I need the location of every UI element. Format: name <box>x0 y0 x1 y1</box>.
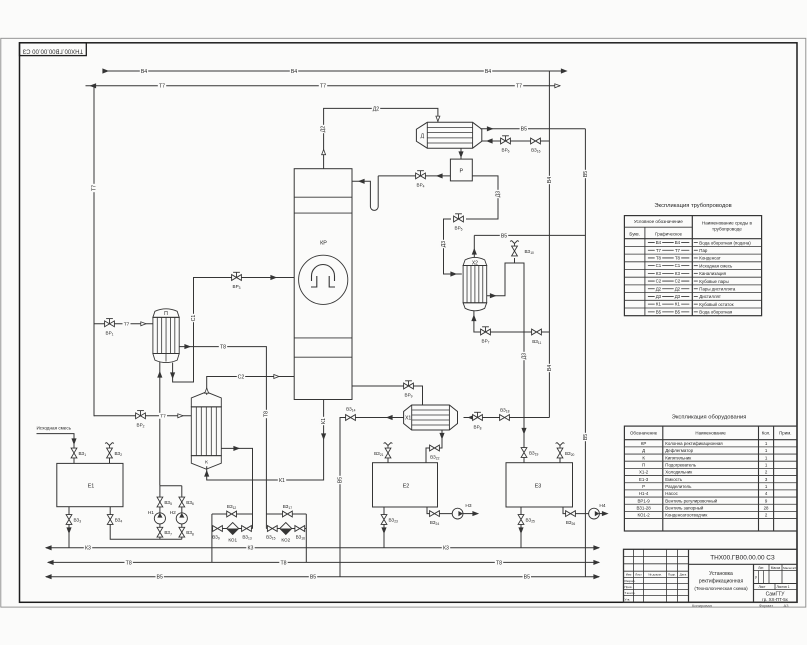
svg-text:Т7: Т7 <box>656 248 662 253</box>
valve VZ9 <box>213 526 223 532</box>
valve VZ3 <box>66 515 72 525</box>
tank E1 <box>57 463 123 506</box>
svg-text:Н2: Н2 <box>170 510 176 516</box>
valve VZ6 <box>179 497 185 507</box>
svg-text:Д2: Д2 <box>321 126 327 133</box>
svg-text:К3: К3 <box>85 546 91 552</box>
wire B4 to X2 bottom <box>478 331 549 333</box>
svg-text:Емкость: Емкость <box>665 477 683 482</box>
valve VR8 <box>477 412 479 417</box>
svg-text:С2: С2 <box>238 374 245 380</box>
valve VZ15 <box>267 526 277 532</box>
svg-text:Дистиллят: Дистиллят <box>699 294 721 299</box>
wire N4 discharge <box>599 513 604 515</box>
svg-text:28: 28 <box>764 506 769 511</box>
svg-text:В5: В5 <box>675 309 681 314</box>
wire E3 drain to K3 <box>520 507 522 548</box>
svg-text:Канализация: Канализация <box>699 271 726 276</box>
svg-text:Т8: Т8 <box>656 256 662 261</box>
svg-text:Т7: Т7 <box>675 248 681 253</box>
svg-text:Д: Д <box>421 133 425 139</box>
svg-text:Обозначение: Обозначение <box>630 431 658 436</box>
svg-text:ректификационная: ректификационная <box>699 579 744 585</box>
valve VZ16b <box>295 526 305 532</box>
pump N2 <box>176 513 187 524</box>
svg-text:Кубовые пары: Кубовые пары <box>699 279 728 284</box>
valve VZ25 <box>518 515 524 525</box>
svg-text:Т7: Т7 <box>91 185 97 191</box>
svg-text:КО2: КО2 <box>281 538 290 543</box>
svg-text:Х1: Х1 <box>405 416 411 422</box>
wire K1 side draw from column to X1 <box>352 386 423 405</box>
svg-text:у: у <box>755 575 757 579</box>
svg-text:Конденсатоотводчик: Конденсатоотводчик <box>665 513 707 518</box>
vent valve VZ2 on E1 <box>109 458 111 463</box>
svg-text:Установка: Установка <box>709 571 733 577</box>
svg-text:КР: КР <box>320 241 327 247</box>
wire B4 to D <box>482 140 550 142</box>
trap KO1 piping <box>212 513 253 515</box>
svg-text:К1: К1 <box>675 302 681 307</box>
wire pump discharge header <box>160 485 182 487</box>
wire T7 top header <box>86 85 561 87</box>
svg-text:Дата: Дата <box>680 573 687 577</box>
svg-text:Д3: Д3 <box>656 294 662 299</box>
svg-text:Холодильник: Холодильник <box>665 470 692 475</box>
svg-text:Наименование: Наименование <box>695 431 726 436</box>
svg-text:Т7: Т7 <box>124 322 130 328</box>
svg-text:Вентиль регулировочный: Вентиль регулировочный <box>665 498 717 503</box>
svg-text:Разделитель: Разделитель <box>665 484 692 489</box>
valve VR2 <box>140 411 142 416</box>
wire B4 top header <box>103 70 567 72</box>
svg-text:Экспликация оборудования: Экспликация оборудования <box>672 415 747 421</box>
vent valve VZ10 on D3 loop <box>514 258 516 263</box>
wire T8 header <box>48 561 599 563</box>
svg-text:ВЗ1-28: ВЗ1-28 <box>636 506 651 511</box>
valve VZ18 <box>500 415 510 421</box>
column KP tray symbol <box>299 255 348 304</box>
valve VZ5 <box>157 497 163 507</box>
svg-text:Д: Д <box>642 448 645 453</box>
svg-text:Копировал: Копировал <box>692 603 713 608</box>
wire X2 bottom inlet <box>474 311 481 332</box>
svg-text:Т8: Т8 <box>264 411 270 417</box>
svg-text:В5: В5 <box>337 477 343 483</box>
svg-text:П: П <box>164 311 168 317</box>
svg-text:Букв.: Букв. <box>629 231 639 236</box>
svg-text:Д2: Д2 <box>373 106 380 112</box>
reflux U-seal <box>352 176 378 211</box>
wire B5 from D <box>480 128 585 130</box>
svg-text:Т8: Т8 <box>675 256 681 261</box>
svg-text:С2: С2 <box>656 279 662 284</box>
wire B4 to X1 <box>464 417 550 419</box>
svg-text:Подогреватель: Подогреватель <box>665 462 696 467</box>
svg-text:Масса: Масса <box>771 566 781 570</box>
svg-text:Т8: Т8 <box>126 560 132 566</box>
wire D3 into E3 <box>523 418 525 463</box>
svg-text:К: К <box>205 460 208 466</box>
svg-text:Разраб.: Разраб. <box>625 579 636 583</box>
svg-text:С1: С1 <box>656 263 662 268</box>
wire E2 drain to K3 <box>383 507 385 548</box>
svg-text:Кол.: Кол. <box>762 431 771 436</box>
valve VZ13 <box>242 526 252 532</box>
svg-text:Т7: Т7 <box>159 84 165 90</box>
wire B5 riser <box>584 129 586 577</box>
cooler X2 <box>463 266 487 303</box>
svg-text:Д3: Д3 <box>441 241 447 248</box>
svg-text:К3: К3 <box>656 271 662 276</box>
svg-text:В4: В4 <box>675 240 681 245</box>
wire N3 discharge <box>463 513 474 515</box>
wire D condensate to separator <box>460 148 462 159</box>
svg-text:К1: К1 <box>656 302 662 307</box>
svg-text:(Технологическая схема): (Технологическая схема) <box>694 586 748 591</box>
svg-text:Е1-3: Е1-3 <box>639 477 649 482</box>
svg-text:гр. ХХ-ПТ-5х: гр. ХХ-ПТ-5х <box>762 597 789 602</box>
cooler X1 <box>404 405 458 430</box>
svg-text:Е2: Е2 <box>403 484 410 490</box>
svg-text:Д3: Д3 <box>521 353 527 360</box>
svg-text:К3: К3 <box>675 271 681 276</box>
wire K3 header <box>46 547 599 549</box>
svg-text:Н3: Н3 <box>465 503 471 509</box>
wire T7 riser left <box>93 86 95 416</box>
svg-text:В5: В5 <box>583 434 589 440</box>
svg-text:В5: В5 <box>656 309 662 314</box>
svg-text:Экспликация трубопроводов: Экспликация трубопроводов <box>654 203 731 209</box>
svg-text:Наименование среды в: Наименование среды в <box>702 221 753 226</box>
wire D3 from X2 over loop <box>487 263 524 418</box>
valve VZ14 <box>346 415 356 421</box>
svg-text:Графическое: Графическое <box>655 231 682 236</box>
svg-text:Д2: Д2 <box>656 286 662 291</box>
wire E1 outlet to pumps <box>110 507 182 540</box>
separator P <box>450 159 472 181</box>
wire D3 distillate from P <box>466 176 498 219</box>
wire B5 out of X1 <box>340 418 404 577</box>
wire X2 water outlet B5 <box>473 235 475 257</box>
svg-text:ВР1-9: ВР1-9 <box>637 498 650 503</box>
svg-text:Вода оборотная (подача): Вода оборотная (подача) <box>699 240 751 245</box>
svg-text:Т8: Т8 <box>496 560 502 566</box>
valve VZ16 <box>531 138 541 144</box>
svg-text:Лист: Лист <box>759 585 766 589</box>
deflegmator D <box>416 122 481 148</box>
svg-text:Вентиль запорный: Вентиль запорный <box>665 506 704 511</box>
svg-text:Колонна ректификационная: Колонна ректификационная <box>665 441 723 446</box>
svg-text:Т7: Т7 <box>320 84 326 90</box>
wire T7 to preheater <box>94 323 153 325</box>
valve VR3 <box>236 272 238 277</box>
svg-text:КО1-2: КО1-2 <box>637 513 650 518</box>
svg-text:В4: В4 <box>547 365 553 371</box>
svg-text:Р: Р <box>642 484 645 489</box>
wire T8 from K to trap KO1 <box>221 448 252 528</box>
wire reflux from P to column <box>378 175 450 177</box>
svg-text:В5: В5 <box>157 575 163 581</box>
valve VZ23 <box>381 515 387 525</box>
svg-text:К3: К3 <box>248 546 254 552</box>
svg-text:Т8: Т8 <box>280 560 286 566</box>
wire T7 to reboiler <box>94 415 191 417</box>
valve VZ7 <box>157 527 163 537</box>
svg-text:Утв.: Утв. <box>625 598 631 602</box>
wire K1 column bottom to reboiler <box>207 400 324 481</box>
valve VZ8 <box>179 527 185 537</box>
wire C2 vapor from K to column <box>207 377 295 395</box>
title block <box>624 549 798 602</box>
preheater P <box>153 317 179 353</box>
valve VR6 <box>505 136 507 141</box>
pump N1 <box>154 513 165 524</box>
trap KO1 <box>227 523 239 535</box>
svg-text:Н4: Н4 <box>599 503 605 509</box>
trap KO2 <box>280 523 292 535</box>
svg-text:Х1-2: Х1-2 <box>639 470 649 475</box>
svg-text:Исходная смесь: Исходная смесь <box>699 263 733 268</box>
wire pump suction/discharge H1 <box>159 524 161 539</box>
valve VZ24 <box>430 511 440 517</box>
trap KO2 piping <box>266 513 306 515</box>
valve VR7 <box>485 327 487 332</box>
svg-text:Пар: Пар <box>699 248 708 253</box>
svg-text:К3: К3 <box>443 546 449 552</box>
valve VR1 <box>109 319 111 324</box>
svg-text:КО1: КО1 <box>228 538 237 543</box>
valve VZ11 <box>532 329 542 335</box>
valve VR9 <box>408 381 410 386</box>
wire K1 from X1 to tank E2 <box>426 430 442 463</box>
svg-text:К: К <box>642 455 645 460</box>
svg-text:Пров.: Пров. <box>625 585 633 589</box>
valve VR4 <box>420 171 422 176</box>
svg-text:В4: В4 <box>656 240 662 245</box>
svg-text:В4: В4 <box>547 177 553 183</box>
svg-text:К1: К1 <box>279 478 285 484</box>
reboiler K <box>191 407 221 456</box>
svg-text:К1: К1 <box>321 418 327 424</box>
svg-text:Формат: Формат <box>759 603 773 608</box>
valve VZ19 <box>521 448 527 458</box>
svg-text:Е1: Е1 <box>88 484 95 490</box>
svg-text:В4: В4 <box>485 69 491 75</box>
vent valve VZ20 on E3 <box>559 458 561 463</box>
svg-text:Изм: Изм <box>626 573 632 577</box>
wire T8 from preheater <box>179 347 266 514</box>
svg-text:Х2: Х2 <box>472 260 478 266</box>
svg-text:Р: Р <box>459 169 463 175</box>
svg-text:В5: В5 <box>501 233 507 239</box>
svg-text:Кипятильник: Кипятильник <box>665 455 691 460</box>
tank E3 <box>506 463 573 507</box>
svg-text:Н1-4: Н1-4 <box>639 491 649 496</box>
svg-text:Лист: Лист <box>635 573 642 577</box>
wire feed to E1 <box>37 434 75 464</box>
svg-text:Т.контр.: Т.контр. <box>625 591 636 595</box>
svg-text:В4: В4 <box>141 69 147 75</box>
valve VZ17 bypass <box>283 511 293 517</box>
svg-text:Лит.: Лит. <box>758 566 764 570</box>
valve VZ4 <box>107 515 113 525</box>
svg-text:Т7: Т7 <box>516 84 522 90</box>
svg-text:Н1: Н1 <box>148 510 154 516</box>
svg-text:КР: КР <box>641 441 647 446</box>
tank E2 <box>373 463 438 507</box>
svg-text:Кубовый остаток: Кубовый остаток <box>699 302 733 307</box>
wire E1 drain to K3 <box>68 507 70 548</box>
inverted designation stamp <box>20 43 87 56</box>
svg-text:ТНХ00.ГВ00.00.00 СЗ: ТНХ00.ГВ00.00.00 СЗ <box>22 47 83 53</box>
svg-text:Масштаб: Масштаб <box>783 566 796 570</box>
svg-text:С2: С2 <box>675 279 681 284</box>
svg-text:ТНХ00.ГВ00.00.00 СЗ: ТНХ00.ГВ00.00.00 СЗ <box>710 555 775 562</box>
valve VR5 <box>458 214 460 219</box>
valve VZ22 <box>430 445 440 451</box>
svg-text:В4: В4 <box>291 69 297 75</box>
svg-text:А3: А3 <box>784 603 790 608</box>
svg-text:Т7: Т7 <box>160 414 166 420</box>
svg-text:В5: В5 <box>310 575 316 581</box>
valve VZ1 <box>71 448 77 458</box>
svg-text:В5: В5 <box>583 171 589 177</box>
svg-text:№ докум.: № докум. <box>648 573 661 577</box>
svg-text:Прим.: Прим. <box>779 431 791 436</box>
svg-text:В5: В5 <box>521 127 527 133</box>
wire D3 to X2 inlet <box>444 219 462 274</box>
wire D2 vapor line <box>324 108 438 168</box>
svg-text:Конденсат: Конденсат <box>699 256 720 261</box>
valve VZ12 bypass <box>227 511 237 517</box>
pump N3 <box>452 508 463 519</box>
svg-text:Д2: Д2 <box>675 286 681 291</box>
svg-text:В5: В5 <box>524 575 530 581</box>
wire E3 to pump N4 <box>563 507 589 514</box>
svg-text:Насос: Насос <box>665 491 678 496</box>
svg-text:С1: С1 <box>675 263 681 268</box>
wire C1 from preheater to column <box>173 278 295 383</box>
svg-text:Подп.: Подп. <box>668 573 676 577</box>
svg-text:Листов 1: Листов 1 <box>776 585 789 589</box>
svg-text:трубопроводе: трубопроводе <box>712 227 742 232</box>
svg-text:П: П <box>642 462 645 467</box>
svg-text:Вода оборотная: Вода оборотная <box>699 310 733 315</box>
svg-text:Д3: Д3 <box>675 294 681 299</box>
vent valve VZ21 on E2 <box>387 458 389 463</box>
wire feed into preheater bottom <box>159 362 161 486</box>
svg-text:Д3: Д3 <box>495 191 501 198</box>
wire B4 riser <box>548 71 550 418</box>
pump N4 <box>589 508 600 519</box>
svg-text:Дефлегматор: Дефлегматор <box>665 448 693 453</box>
wire E2 to pump N3 <box>427 507 452 514</box>
column KP body <box>294 169 352 400</box>
wire B5 header <box>46 576 599 578</box>
svg-text:Исходная смесь: Исходная смесь <box>37 426 72 431</box>
svg-text:Е3: Е3 <box>535 484 542 490</box>
svg-text:Т8: Т8 <box>220 344 226 350</box>
svg-text:Пары дистиллята: Пары дистиллята <box>699 286 736 291</box>
svg-text:Условное обозначение: Условное обозначение <box>634 219 683 224</box>
valve VZ26 <box>566 511 576 517</box>
svg-text:С1: С1 <box>191 315 197 322</box>
